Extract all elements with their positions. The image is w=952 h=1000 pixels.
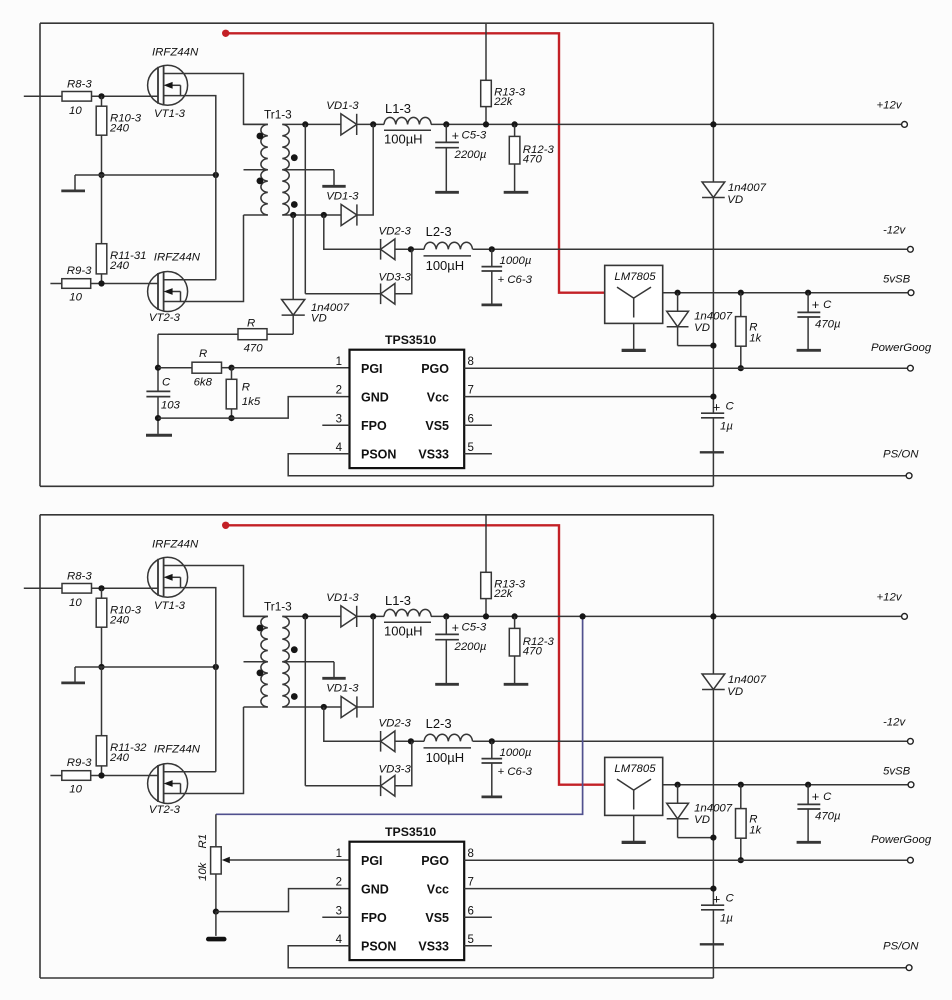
svg-text:10: 10: [69, 291, 82, 303]
svg-text:240: 240: [109, 752, 130, 764]
svg-text:7: 7: [468, 877, 474, 889]
svg-text:8: 8: [468, 356, 474, 368]
svg-text:VD3-3: VD3-3: [379, 763, 412, 775]
svg-text:PGO: PGO: [421, 362, 449, 376]
svg-text:240: 240: [109, 122, 130, 134]
svg-text:6k8: 6k8: [194, 376, 213, 388]
svg-text:PS/ON: PS/ON: [883, 449, 919, 461]
svg-text:IRFZ44N: IRFZ44N: [152, 538, 199, 550]
svg-text:3: 3: [336, 413, 342, 425]
svg-text:VD: VD: [311, 313, 327, 325]
svg-text:PSON: PSON: [361, 940, 396, 954]
svg-text:+: +: [452, 621, 459, 635]
svg-text:FPO: FPO: [361, 419, 387, 433]
svg-text:100µH: 100µH: [384, 624, 423, 639]
svg-text:5vSB: 5vSB: [883, 274, 911, 286]
svg-text:100µH: 100µH: [384, 132, 423, 147]
svg-text:240: 240: [109, 260, 130, 272]
svg-text:100µH: 100µH: [426, 750, 465, 765]
svg-text:VD1-3: VD1-3: [326, 191, 359, 203]
svg-text:VD2-3: VD2-3: [379, 226, 412, 238]
svg-text:4: 4: [336, 442, 343, 454]
svg-text:2200µ: 2200µ: [454, 641, 487, 653]
svg-text:R9-3: R9-3: [67, 757, 92, 769]
svg-text:VT2-3: VT2-3: [149, 804, 181, 816]
svg-text:PGI: PGI: [361, 854, 383, 868]
svg-text:2200µ: 2200µ: [454, 149, 487, 161]
svg-text:2: 2: [336, 877, 342, 889]
svg-text:22k: 22k: [493, 96, 514, 108]
svg-text:VD3-3: VD3-3: [379, 271, 412, 283]
svg-text:1: 1: [336, 356, 342, 368]
svg-text:VS33: VS33: [418, 940, 449, 954]
svg-text:1k: 1k: [749, 825, 762, 837]
svg-text:C5-3: C5-3: [462, 129, 487, 141]
svg-text:470: 470: [523, 154, 543, 166]
svg-text:100µH: 100µH: [426, 258, 465, 273]
svg-text:10: 10: [69, 597, 82, 609]
svg-text:VD: VD: [694, 322, 710, 334]
svg-text:Tr1-3: Tr1-3: [264, 600, 292, 614]
svg-text:240: 240: [109, 614, 130, 626]
svg-text:C: C: [726, 401, 735, 413]
svg-text:+: +: [713, 892, 721, 907]
svg-text:VT2-3: VT2-3: [149, 312, 181, 324]
svg-text:1000µ: 1000µ: [500, 747, 532, 759]
svg-text:1µ: 1µ: [720, 913, 733, 925]
svg-text:VS33: VS33: [418, 448, 449, 462]
svg-text:PGO: PGO: [421, 854, 449, 868]
svg-text:L2-3: L2-3: [426, 224, 452, 239]
svg-text:5: 5: [468, 442, 474, 454]
svg-text:1µ: 1µ: [720, 421, 733, 433]
svg-text:VD1-3: VD1-3: [326, 683, 359, 695]
svg-text:FPO: FPO: [361, 911, 387, 925]
svg-text:8: 8: [468, 848, 474, 860]
svg-text:R: R: [247, 317, 255, 329]
svg-text:TPS3510: TPS3510: [385, 825, 436, 839]
svg-text:+: +: [812, 297, 820, 312]
svg-text:PSON: PSON: [361, 448, 396, 462]
svg-text:470: 470: [244, 342, 264, 354]
svg-text:IRFZ44N: IRFZ44N: [154, 744, 201, 756]
svg-text:1000µ: 1000µ: [500, 255, 532, 267]
svg-text:C: C: [823, 791, 832, 803]
svg-text:10k: 10k: [197, 861, 209, 881]
svg-text:+: +: [812, 789, 820, 804]
svg-text:VD1-3: VD1-3: [326, 592, 359, 604]
svg-text:1k5: 1k5: [242, 396, 261, 408]
svg-text:+: +: [452, 129, 459, 143]
svg-text:TPS3510: TPS3510: [385, 333, 436, 347]
svg-text:GND: GND: [361, 882, 389, 896]
svg-text:Vcc: Vcc: [427, 882, 449, 896]
svg-text:VD: VD: [727, 194, 743, 206]
svg-text:IRFZ44N: IRFZ44N: [152, 46, 199, 58]
svg-text:R8-3: R8-3: [67, 571, 92, 583]
svg-text:470µ: 470µ: [815, 318, 841, 330]
svg-text:-12v: -12v: [883, 716, 906, 728]
svg-text:L2-3: L2-3: [426, 716, 452, 731]
svg-text:VD: VD: [727, 686, 743, 698]
svg-text:1n4007: 1n4007: [728, 182, 767, 194]
svg-text:L1-3: L1-3: [385, 101, 411, 116]
svg-text:10: 10: [69, 105, 82, 117]
svg-text:R9-3: R9-3: [67, 265, 92, 277]
svg-text:Vcc: Vcc: [427, 390, 449, 404]
svg-text:103: 103: [161, 399, 181, 411]
svg-text:R: R: [199, 348, 207, 360]
svg-text:PowerGoog: PowerGoog: [871, 342, 932, 354]
svg-text:C5-3: C5-3: [462, 621, 487, 633]
svg-text:2: 2: [336, 385, 342, 397]
svg-text:470: 470: [523, 646, 543, 658]
svg-text:6: 6: [468, 413, 474, 425]
svg-text:R8-3: R8-3: [67, 79, 92, 91]
svg-text:22k: 22k: [493, 588, 514, 600]
svg-text:VT1-3: VT1-3: [154, 108, 186, 120]
svg-text:5vSB: 5vSB: [883, 766, 911, 778]
svg-text:1k: 1k: [749, 333, 762, 345]
svg-text:GND: GND: [361, 390, 389, 404]
svg-text:R: R: [242, 382, 250, 394]
svg-text:6: 6: [468, 905, 474, 917]
svg-text:C: C: [823, 299, 832, 311]
svg-text:LM7805: LM7805: [614, 763, 656, 775]
svg-text:3: 3: [336, 905, 342, 917]
svg-text:Tr1-3: Tr1-3: [264, 108, 292, 122]
svg-text:470µ: 470µ: [815, 810, 841, 822]
svg-text:1: 1: [336, 848, 342, 860]
svg-text:R1: R1: [197, 834, 209, 849]
svg-text:7: 7: [468, 385, 474, 397]
svg-text:VD1-3: VD1-3: [326, 100, 359, 112]
svg-text:10: 10: [69, 783, 82, 795]
svg-text:+: +: [713, 400, 721, 415]
svg-text:PowerGoog: PowerGoog: [871, 834, 932, 846]
svg-text:PGI: PGI: [361, 362, 383, 376]
svg-text:4: 4: [336, 934, 343, 946]
svg-text:C: C: [726, 893, 735, 905]
svg-text:1n4007: 1n4007: [728, 674, 767, 686]
svg-text:C: C: [162, 377, 171, 389]
svg-text:VS5: VS5: [425, 911, 449, 925]
svg-text:+ C6-3: + C6-3: [498, 274, 533, 286]
svg-text:PS/ON: PS/ON: [883, 941, 919, 953]
svg-text:IRFZ44N: IRFZ44N: [154, 252, 201, 264]
svg-text:VT1-3: VT1-3: [154, 600, 186, 612]
svg-text:+12v: +12v: [877, 592, 903, 604]
svg-text:VD2-3: VD2-3: [379, 718, 412, 730]
svg-text:-12v: -12v: [883, 224, 906, 236]
svg-text:LM7805: LM7805: [614, 271, 656, 283]
svg-text:VS5: VS5: [425, 419, 449, 433]
svg-text:+ C6-3: + C6-3: [498, 766, 533, 778]
svg-text:VD: VD: [694, 814, 710, 826]
svg-text:L1-3: L1-3: [385, 593, 411, 608]
svg-text:5: 5: [468, 934, 474, 946]
svg-text:+12v: +12v: [877, 100, 903, 112]
